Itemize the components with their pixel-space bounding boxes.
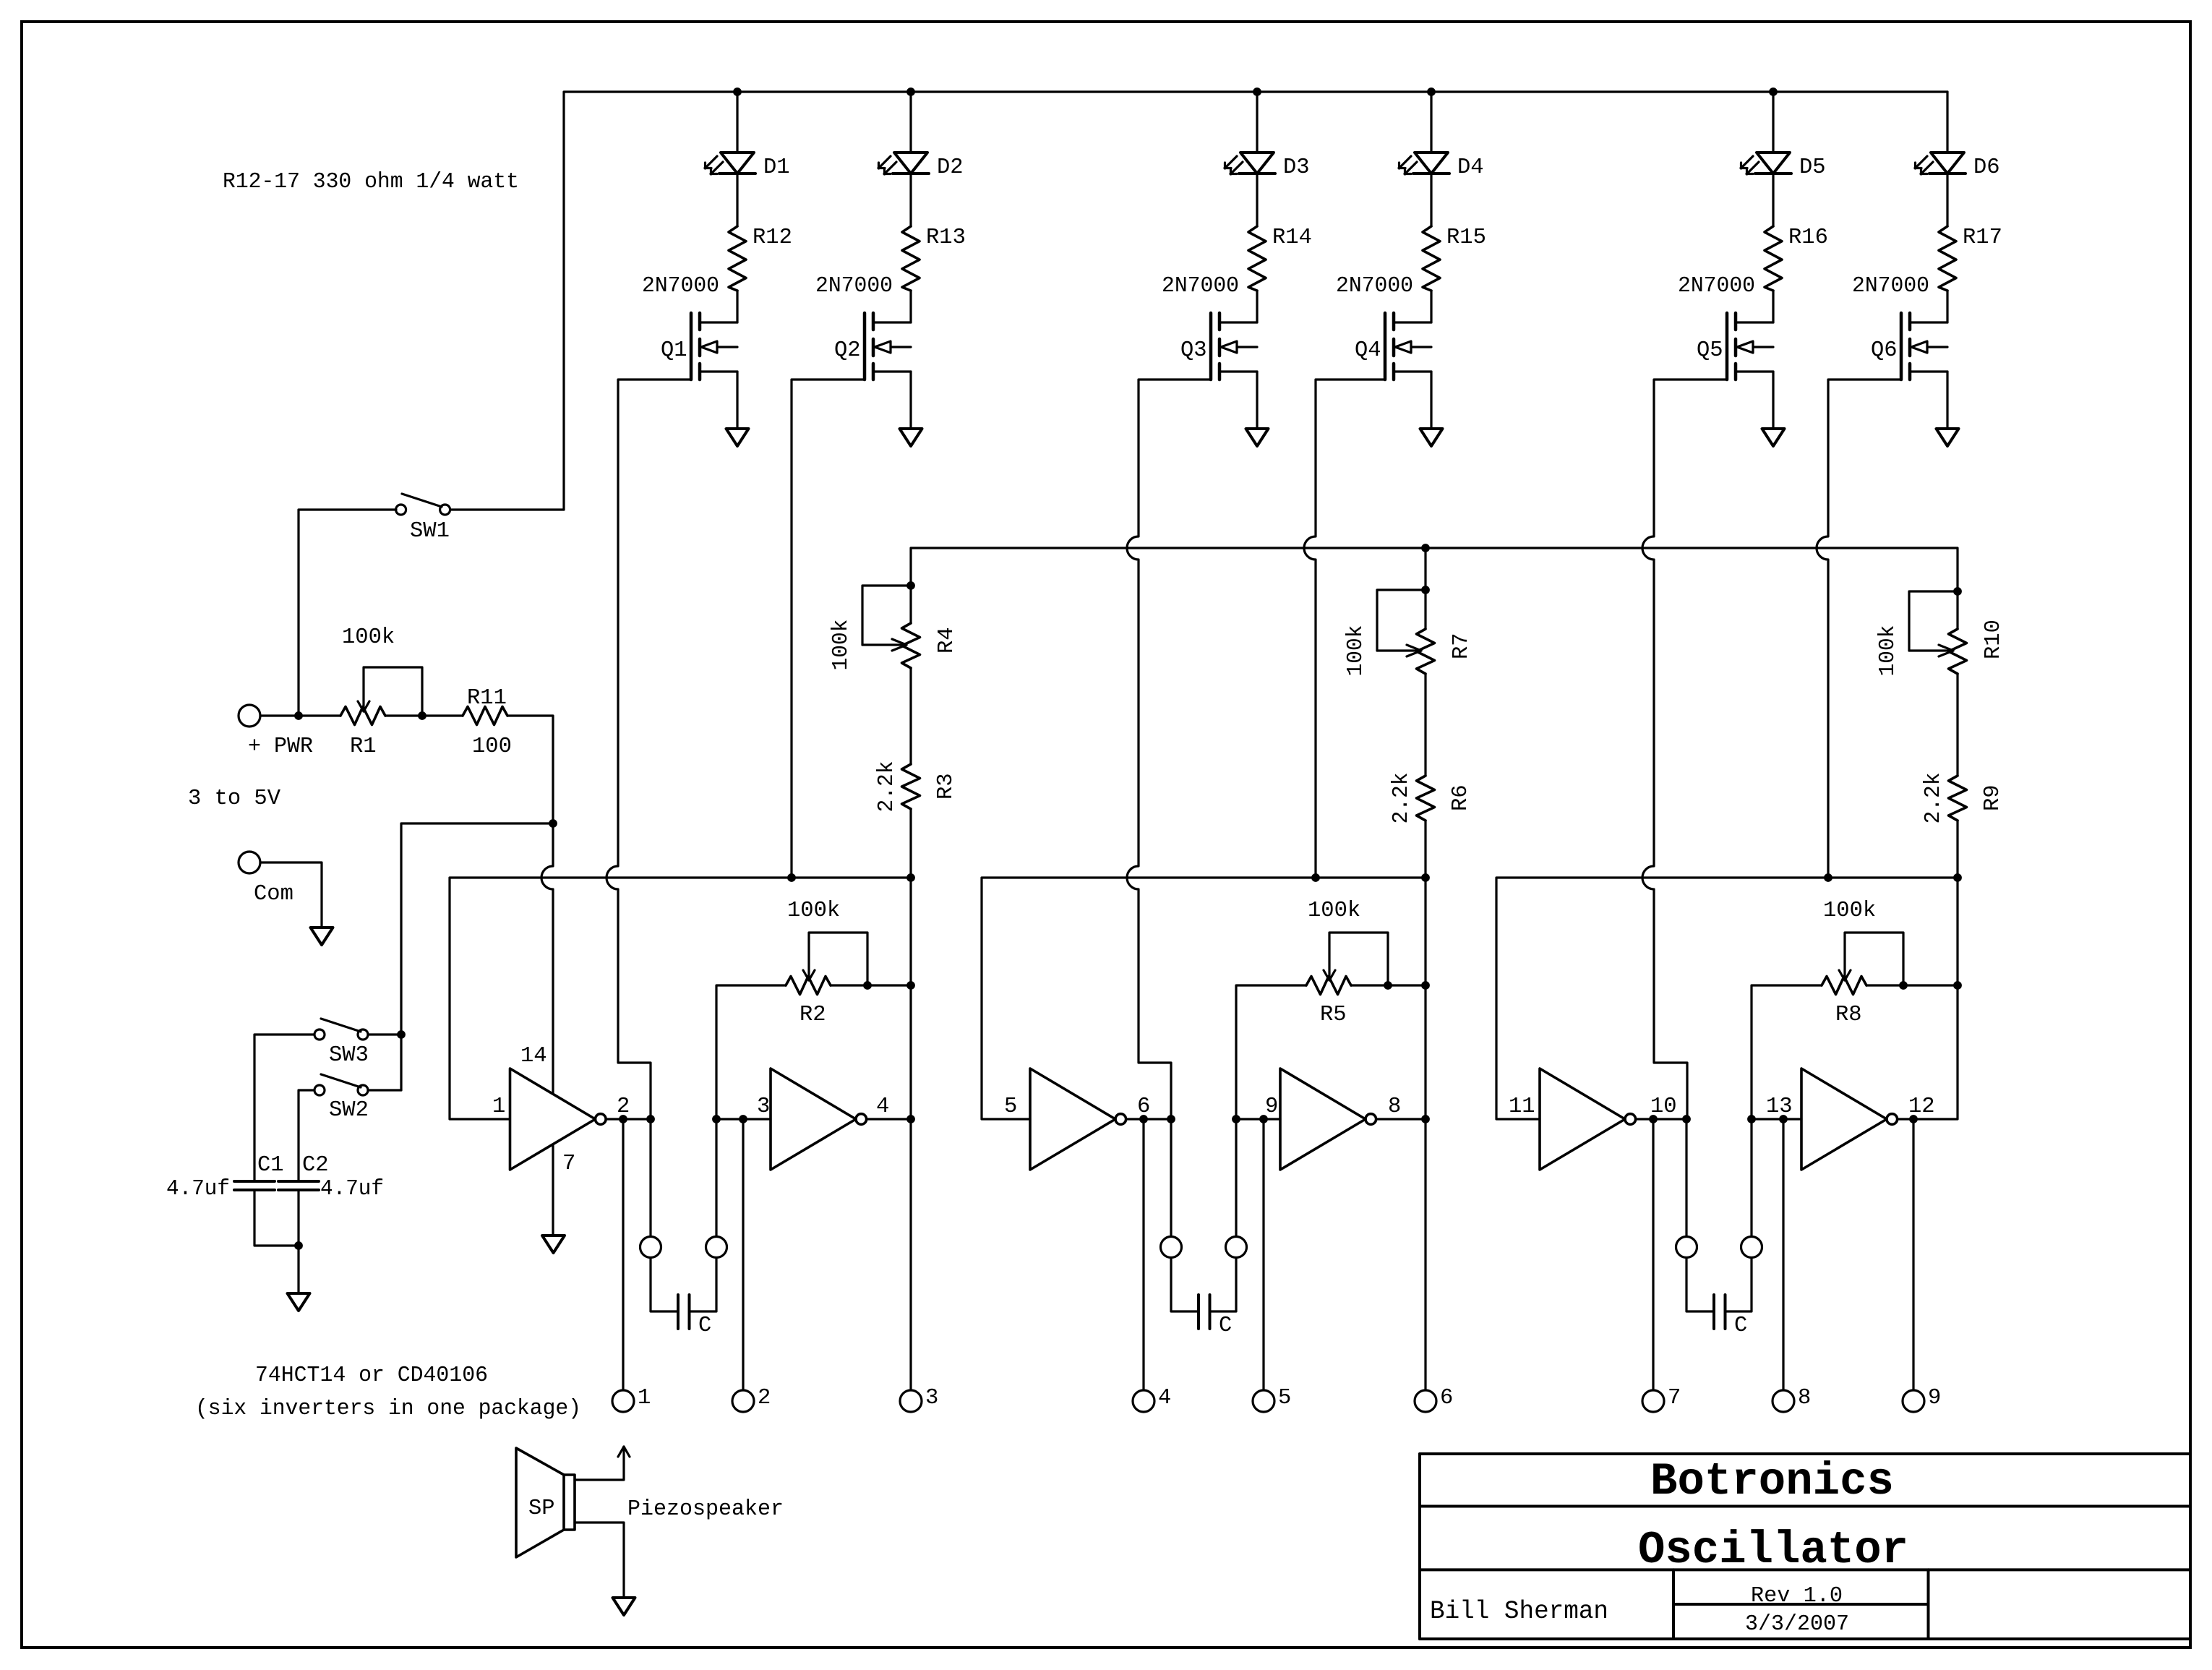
- svg-text:R16: R16: [1788, 226, 1828, 250]
- resistor R15 330 ohm: [1423, 226, 1486, 291]
- terminal C left osc3: [1676, 1237, 1697, 1258]
- terminal 7: [1642, 1386, 1681, 1412]
- wire R10 to R9: [1956, 674, 1958, 776]
- wire D4 anode: [1430, 92, 1432, 153]
- junction inverter6 input C link: [1747, 1115, 1756, 1123]
- ground C2: [288, 1293, 310, 1311]
- ground speaker: [613, 1598, 635, 1615]
- wire Com to ground: [260, 862, 322, 928]
- svg-text:C1: C1: [257, 1153, 284, 1178]
- inverter U1D pins 9-8: [1265, 1069, 1401, 1170]
- junction bus3 R9 column: [1953, 873, 1962, 882]
- ground inverter pin 7: [542, 1236, 565, 1253]
- junction power rail at D1: [733, 87, 742, 96]
- wire inverter1 output: [606, 1118, 651, 1120]
- junction R2 wiper loop: [863, 981, 872, 990]
- junction power rail at D3: [1253, 87, 1261, 96]
- wire Q1 gate to inverter1 output: [606, 380, 691, 1119]
- wire Q1 source: [736, 372, 738, 429]
- svg-text:4: 4: [1158, 1386, 1171, 1410]
- title Rev 1.0: [1751, 1584, 1843, 1609]
- capacitor C osc2: [1199, 1295, 1232, 1338]
- wire R16 to Q5 drain: [1772, 291, 1774, 322]
- svg-text:Bill Sherman: Bill Sherman: [1430, 1597, 1608, 1626]
- junction R5 column: [1421, 981, 1430, 990]
- svg-text:100: 100: [472, 735, 512, 759]
- wire to terminal 2: [742, 1119, 744, 1390]
- resistor R17 330 ohm: [1939, 226, 2002, 291]
- wire IC pin 14: [541, 823, 553, 1094]
- svg-text:D4: D4: [1457, 155, 1484, 180]
- junction R5 wiper loop: [1384, 981, 1392, 990]
- svg-text:C2: C2: [302, 1153, 329, 1178]
- wire R2 left arm: [716, 985, 786, 1236]
- wire SW1 to power rail: [450, 508, 564, 510]
- svg-text:2N7000: 2N7000: [1162, 274, 1239, 299]
- svg-text:Piezospeaker: Piezospeaker: [627, 1497, 784, 1522]
- wire R8 left arm: [1752, 985, 1822, 1236]
- svg-text:2N7000: 2N7000: [1678, 274, 1755, 299]
- switch SW2: [314, 1074, 369, 1123]
- wire inverter5 output: [1636, 1118, 1686, 1120]
- wire to terminal 5: [1262, 1119, 1264, 1390]
- junction inverter4 input C link: [1232, 1115, 1240, 1123]
- wire capacitor to C right osc1: [690, 1258, 717, 1311]
- svg-text:2.2k: 2.2k: [1389, 773, 1414, 824]
- terminal C right osc2: [1226, 1237, 1247, 1258]
- svg-text:100k: 100k: [342, 625, 395, 650]
- note R12-17 330 ohm 1/4 watt: [223, 170, 519, 194]
- svg-text:Q6: Q6: [1871, 338, 1898, 363]
- LED D3: [1225, 153, 1310, 180]
- svg-text:14: 14: [520, 1044, 547, 1069]
- svg-text:SP: SP: [528, 1496, 555, 1521]
- wire D2 anode: [909, 92, 912, 153]
- wire D1 cathode to R12: [736, 174, 738, 226]
- wire inverter2 input: [716, 1118, 771, 1120]
- capacitor C2 4.7uf: [278, 1153, 384, 1202]
- junction R10 top: [1953, 587, 1962, 596]
- wire R15 to Q4 drain: [1430, 291, 1432, 322]
- wire Q4 source: [1430, 372, 1432, 429]
- wire Q5 gate to inverter5 output: [1642, 380, 1727, 1119]
- wire power rail: [564, 92, 1947, 510]
- wire Q5 source: [1772, 372, 1774, 429]
- title Botronics: [1650, 1456, 1894, 1507]
- terminal 9: [1903, 1386, 1941, 1412]
- terminal 2: [732, 1386, 771, 1412]
- junction inverter5 output terminal 7: [1649, 1115, 1658, 1123]
- svg-text:R10: R10: [1981, 620, 2006, 659]
- resistor R6 2.2k: [1389, 773, 1473, 824]
- wire R14 to Q3 drain: [1256, 291, 1258, 322]
- title block: [1420, 1454, 2190, 1639]
- wire D4 cathode to R15: [1430, 174, 1432, 226]
- svg-text:100k: 100k: [1823, 899, 1876, 923]
- switch SW1: [396, 494, 450, 544]
- terminal C right osc3: [1741, 1237, 1762, 1258]
- svg-text:R1: R1: [350, 735, 377, 759]
- junction inverter5 output C link: [1682, 1115, 1691, 1123]
- wire Q4 gate to bus 2: [1304, 380, 1385, 878]
- junction inverter3 output terminal 4: [1139, 1115, 1148, 1123]
- wire R8 to column: [1866, 984, 1958, 986]
- svg-text:R9: R9: [1981, 784, 2005, 811]
- junction inverter2 input terminal 2: [739, 1115, 747, 1123]
- svg-text:1: 1: [638, 1386, 651, 1410]
- speaker SP: [516, 1448, 575, 1557]
- wire inverter4 output: [1376, 1118, 1426, 1120]
- ground Com: [311, 928, 333, 945]
- wire inverter1 pin7: [552, 1144, 554, 1236]
- svg-text:D3: D3: [1283, 155, 1310, 180]
- svg-text:Oscillator: Oscillator: [1638, 1525, 1908, 1576]
- junction bus2 Q4 gate: [1311, 873, 1320, 882]
- inverter U1E pins 11-10: [1509, 1069, 1677, 1170]
- wire R13 to Q2 drain: [909, 291, 912, 322]
- capacitor C osc3: [1714, 1295, 1747, 1338]
- svg-text:R15: R15: [1446, 226, 1486, 250]
- svg-text:Q1: Q1: [661, 338, 687, 363]
- label Piezospeaker: [627, 1497, 784, 1522]
- svg-text:3/3/2007: 3/3/2007: [1745, 1612, 1849, 1637]
- svg-text:5: 5: [1278, 1386, 1291, 1410]
- svg-text:8: 8: [1798, 1386, 1811, 1410]
- wire inverter6 output: [1898, 878, 1958, 1119]
- wire to terminal 4: [1142, 1119, 1144, 1390]
- ground Q4 source: [1420, 429, 1443, 446]
- wire C left to capacitor osc3: [1686, 1258, 1714, 1311]
- terminal 5: [1253, 1386, 1291, 1412]
- junction IC power node: [549, 819, 557, 828]
- terminal +PWR: [239, 705, 313, 759]
- junction power rail at D4: [1427, 87, 1436, 96]
- title date 3/3/2007: [1745, 1612, 1849, 1637]
- transistor Q6 2N7000: [1852, 274, 1947, 380]
- potentiometer R7 100k: [1344, 590, 1474, 677]
- wire SW3 node to SW2: [400, 1035, 402, 1090]
- junction R2 column: [906, 981, 915, 990]
- wire inverter output to C terminal osc1: [649, 1119, 651, 1236]
- svg-text:6: 6: [1440, 1386, 1453, 1410]
- wire R11 to IC power node: [507, 716, 553, 823]
- svg-text:C: C: [1219, 1314, 1232, 1338]
- wire R1 to R11: [385, 714, 463, 716]
- terminal 4: [1133, 1386, 1171, 1412]
- potentiometer R2 100k: [786, 899, 867, 1027]
- wire C left to capacitor osc2: [1171, 1258, 1199, 1311]
- potentiometer R10 100k: [1876, 591, 2006, 677]
- resistor R9 2.2k: [1921, 773, 2005, 824]
- wire speaker plus terminal: [575, 1447, 630, 1480]
- svg-text:13: 13: [1766, 1095, 1793, 1119]
- wire D2 cathode to R13: [909, 174, 912, 226]
- svg-text:9: 9: [1928, 1386, 1941, 1410]
- transistor Q2 2N7000: [815, 274, 911, 380]
- junction inverter2 output column: [906, 1115, 915, 1123]
- switch SW3: [314, 1019, 369, 1068]
- resistor R11 100: [463, 686, 512, 759]
- wire R5 left arm: [1236, 985, 1306, 1236]
- junction R8 column: [1953, 981, 1962, 990]
- wire SW3 to power node: [368, 1033, 401, 1035]
- svg-text:C: C: [1734, 1314, 1747, 1338]
- svg-text:R6: R6: [1449, 784, 1473, 811]
- wire Q3 gate to inverter3 output: [1127, 380, 1211, 1119]
- resistor R3 2.2k: [875, 761, 959, 813]
- resistor R13 330 ohm: [902, 226, 966, 291]
- capacitor C1 4.7uf: [166, 1153, 284, 1202]
- svg-text:Q2: Q2: [834, 338, 861, 363]
- terminal C left osc1: [640, 1237, 661, 1258]
- svg-text:3: 3: [757, 1095, 770, 1119]
- junction inverter3 output C link: [1167, 1115, 1175, 1123]
- ground Q5 source: [1762, 429, 1785, 446]
- svg-text:4.7uf: 4.7uf: [320, 1177, 384, 1202]
- svg-text:R14: R14: [1272, 226, 1312, 250]
- terminal 6: [1415, 1386, 1453, 1412]
- inverter U1A pins 1-2: [492, 1044, 630, 1176]
- ground Q3 source: [1246, 429, 1269, 446]
- svg-text:D5: D5: [1799, 155, 1826, 180]
- junction power rail at D5: [1769, 87, 1778, 96]
- junction R4 top: [906, 581, 915, 590]
- junction bus at R7: [1421, 544, 1430, 552]
- junction R1 loop: [418, 711, 426, 720]
- junction inverter4 input terminal 5: [1259, 1115, 1268, 1123]
- junction inverter4 output column: [1421, 1115, 1430, 1123]
- ground Q2 source: [900, 429, 922, 446]
- note six inverters in one package: [195, 1397, 581, 1421]
- svg-text:2N7000: 2N7000: [1336, 274, 1413, 299]
- svg-text:SW1: SW1: [410, 519, 450, 544]
- transistor Q1 2N7000: [642, 274, 737, 380]
- wire SW3 to C1: [254, 1035, 314, 1181]
- wire R9 to input bus: [1956, 821, 1958, 878]
- svg-text:D2: D2: [937, 155, 964, 180]
- wire R7 to R6: [1424, 674, 1426, 776]
- junction bus1 R3 column: [906, 873, 915, 882]
- svg-text:100k: 100k: [829, 620, 854, 671]
- junction bus3 Q6 gate: [1824, 873, 1832, 882]
- wire D6 cathode to R17: [1946, 174, 1948, 226]
- wire inverter3 output: [1126, 1118, 1171, 1120]
- svg-text:C: C: [698, 1314, 711, 1338]
- wire to terminal 8: [1782, 1119, 1784, 1390]
- LED D6: [1915, 153, 2000, 180]
- wire D5 cathode to R16: [1772, 174, 1774, 226]
- wire inverter4 input: [1236, 1118, 1280, 1120]
- junction SW3 node: [397, 1030, 406, 1039]
- svg-text:4: 4: [876, 1095, 889, 1119]
- svg-text:7: 7: [562, 1152, 575, 1176]
- wire D5 anode: [1772, 92, 1774, 153]
- wire inverter6 input: [1752, 1118, 1801, 1120]
- junction bus2 R6 column: [1421, 873, 1430, 882]
- potentiometer R1 100k: [340, 625, 422, 759]
- wire R6 to input bus: [1424, 821, 1426, 878]
- svg-text:Q4: Q4: [1355, 338, 1381, 363]
- wire R5 to column: [1351, 984, 1426, 986]
- junction bus1 Q2 gate: [787, 873, 796, 882]
- ground Q6 source: [1937, 429, 1959, 446]
- junction +PWR node: [294, 711, 303, 720]
- svg-text:+ PWR: + PWR: [248, 735, 313, 759]
- wire D3 anode: [1256, 92, 1258, 153]
- wire Q6 source: [1946, 372, 1948, 429]
- wire R4 to R3: [909, 668, 912, 764]
- svg-text:2N7000: 2N7000: [815, 274, 893, 299]
- wire D3 cathode to R14: [1256, 174, 1258, 226]
- svg-text:2.2k: 2.2k: [1921, 773, 1946, 824]
- LED D2: [878, 153, 964, 180]
- title author Bill Sherman: [1430, 1597, 1608, 1626]
- svg-text:11: 11: [1509, 1095, 1535, 1119]
- wire capacitor to C right osc2: [1210, 1258, 1237, 1311]
- potentiometer R4 100k: [829, 586, 959, 671]
- svg-text:R13: R13: [926, 226, 966, 250]
- svg-text:R5: R5: [1320, 1003, 1347, 1027]
- wire D6 anode: [1946, 92, 1948, 153]
- capacitor C osc1: [678, 1295, 711, 1338]
- wire capacitor to C right osc3: [1726, 1258, 1752, 1311]
- wire power node to switches: [401, 823, 553, 1035]
- svg-text:Q3: Q3: [1180, 338, 1207, 363]
- junction capacitor ground node: [294, 1241, 303, 1250]
- wire +PWR to SW1: [299, 510, 396, 716]
- wire Q2 source: [909, 372, 912, 429]
- svg-text:R17: R17: [1963, 226, 2002, 250]
- svg-text:R4: R4: [935, 627, 959, 654]
- wire oscillator3 input bus: [1496, 878, 1958, 1119]
- svg-text:R8: R8: [1835, 1003, 1862, 1027]
- wire C2 to ground: [297, 1190, 299, 1293]
- wire R2 to column: [831, 984, 911, 986]
- junction inverter1 output C link: [646, 1115, 655, 1123]
- svg-text:100k: 100k: [1876, 625, 1900, 677]
- junction inverter6 input terminal 8: [1779, 1115, 1788, 1123]
- wire C1 to ground node: [254, 1190, 299, 1246]
- resistor R12 330 ohm: [729, 226, 792, 291]
- svg-text:D6: D6: [1973, 155, 2000, 180]
- svg-text:100k: 100k: [1308, 899, 1360, 923]
- terminal Com: [239, 852, 293, 907]
- svg-text:2N7000: 2N7000: [1852, 274, 1929, 299]
- terminal C left osc2: [1161, 1237, 1182, 1258]
- LED D4: [1399, 153, 1484, 180]
- inverter U1B pins 3-4: [757, 1069, 889, 1170]
- svg-text:Q5: Q5: [1697, 338, 1723, 363]
- svg-text:4.7uf: 4.7uf: [166, 1177, 230, 1202]
- inverter U1C pins 5-6: [1004, 1069, 1150, 1170]
- wire Q3 source: [1256, 372, 1258, 429]
- potentiometer R8 100k: [1822, 899, 1903, 1027]
- wire speaker minus to ground: [575, 1523, 624, 1598]
- LED D1: [705, 153, 790, 180]
- note 74HCT14 or CD40106: [255, 1363, 488, 1388]
- wire R6 column to terminal 6: [1424, 878, 1426, 1390]
- svg-text:D1: D1: [763, 155, 790, 180]
- svg-text:3 to 5V: 3 to 5V: [188, 787, 281, 811]
- wire inverter output to C terminal osc3: [1685, 1119, 1687, 1236]
- svg-text:3: 3: [925, 1386, 938, 1410]
- wire bus to R7: [1424, 548, 1426, 590]
- wire oscillator2 input bus: [982, 878, 1426, 1119]
- wire to terminal 9: [1912, 1119, 1914, 1390]
- resistor R16 330 ohm: [1765, 226, 1828, 291]
- svg-text:1: 1: [492, 1095, 505, 1119]
- junction inverter1 output terminal 1: [619, 1115, 627, 1123]
- wire to terminal 1: [622, 1119, 624, 1390]
- terminal 8: [1772, 1386, 1811, 1412]
- wire SW2 to C2: [299, 1090, 314, 1181]
- svg-text:R12: R12: [753, 226, 792, 250]
- transistor Q4 2N7000: [1336, 274, 1431, 380]
- resistor R14 330 ohm: [1248, 226, 1312, 291]
- transistor Q5 2N7000: [1678, 274, 1773, 380]
- label 3 to 5V: [188, 787, 281, 811]
- wire +PWR to R1: [260, 714, 340, 716]
- potentiometer R5 100k: [1306, 899, 1388, 1027]
- svg-text:Rev 1.0: Rev 1.0: [1751, 1584, 1843, 1609]
- svg-text:R7: R7: [1449, 633, 1474, 659]
- terminal 3: [900, 1386, 938, 1412]
- wire Q6 gate to bus 3: [1817, 380, 1901, 878]
- wire R12 to Q1 drain: [736, 291, 738, 322]
- wire inverter output to C terminal osc2: [1170, 1119, 1172, 1236]
- svg-text:9: 9: [1265, 1095, 1278, 1119]
- svg-text:2: 2: [758, 1386, 771, 1410]
- svg-text:SW2: SW2: [329, 1098, 369, 1123]
- junction inverter6 output terminal 9: [1909, 1115, 1918, 1123]
- svg-text:R12-17 330 ohm 1/4 watt: R12-17 330 ohm 1/4 watt: [223, 170, 519, 194]
- svg-text:5: 5: [1004, 1095, 1017, 1119]
- wire R17 to Q6 drain: [1946, 291, 1948, 322]
- wire D1 anode: [736, 92, 738, 153]
- wire SW2 to power node: [368, 1089, 401, 1091]
- junction R7 top: [1421, 586, 1430, 594]
- LED D5: [1741, 153, 1826, 180]
- wire Q2 gate to bus 1: [792, 380, 865, 878]
- svg-text:R3: R3: [934, 773, 959, 800]
- wire oscillator1 input bus: [450, 878, 911, 1119]
- svg-text:R11: R11: [467, 686, 507, 711]
- svg-text:8: 8: [1388, 1095, 1401, 1119]
- wire to terminal 7: [1652, 1119, 1654, 1390]
- svg-text:74HCT14 or CD40106: 74HCT14 or CD40106: [255, 1363, 488, 1388]
- terminal C right osc1: [706, 1237, 727, 1258]
- inverter U1F pins 13-12: [1766, 1069, 1935, 1170]
- svg-text:2.2k: 2.2k: [875, 761, 899, 813]
- junction inverter2 input C link: [712, 1115, 721, 1123]
- svg-text:SW3: SW3: [329, 1043, 369, 1068]
- junction R8 wiper loop: [1899, 981, 1908, 990]
- svg-text:Com: Com: [254, 882, 293, 907]
- svg-text:Botronics: Botronics: [1650, 1456, 1894, 1507]
- wire R3 column to terminal 3: [909, 878, 912, 1390]
- title Oscillator: [1638, 1525, 1908, 1576]
- wire inverter2 output: [867, 1118, 911, 1120]
- svg-text:2N7000: 2N7000: [642, 274, 719, 299]
- svg-text:100k: 100k: [787, 899, 840, 923]
- ground Q1 source: [726, 429, 749, 446]
- wire C left to capacitor osc1: [651, 1258, 678, 1311]
- wire feedback bus 100k pots: [911, 548, 1958, 591]
- svg-text:7: 7: [1668, 1386, 1681, 1410]
- junction power rail at D2: [906, 87, 915, 96]
- svg-text:100k: 100k: [1344, 625, 1368, 677]
- svg-text:R2: R2: [800, 1003, 826, 1027]
